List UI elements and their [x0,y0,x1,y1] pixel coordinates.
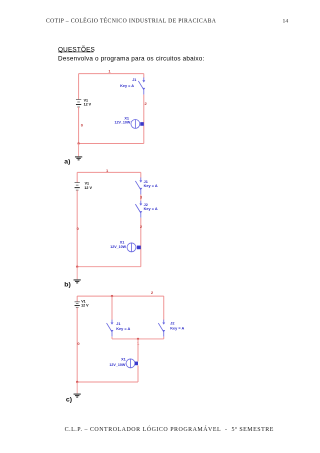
wire: top B [77,171,141,173]
svg-text:Key = A: Key = A [144,184,158,188]
battery V1 (circuit a) [76,99,81,106]
wire: left C lower [76,308,78,382]
wire: left branch C upper [111,296,113,320]
svg-text:14: 14 [283,18,289,24]
svg-text:Key = A: Key = A [120,84,134,88]
svg-text:Desenvolva o programa para os: Desenvolva o programa para os circuitos … [58,56,204,63]
junction C bottom-left [76,381,78,383]
svg-text:V1: V1 [84,98,88,102]
wire: left A upper [77,74,79,100]
svg-text:J2: J2 [170,322,174,326]
wire: right B upper stub [140,172,142,177]
wire: ground stem B [76,267,78,280]
svg-text:c): c) [66,397,72,404]
junction B bottom-left [76,265,78,267]
switch J2 (circuit b) [135,201,142,218]
svg-text:12 V: 12 V [84,186,92,190]
ground (circuit c) [74,394,81,397]
junction A bottom-left [77,142,79,144]
svg-text:J2: J2 [144,203,148,207]
wire: right A lower [143,95,145,144]
wire: between switches B [140,195,142,201]
svg-text:b): b) [64,282,70,289]
junction C mid [137,338,139,340]
wire: top C [77,295,164,297]
switch J1 (circuit b) [135,178,142,195]
battery V1 (circuit c) [75,302,80,308]
wire: right A upper stub [143,74,145,78]
wire: left B upper [76,172,78,182]
svg-text:V1: V1 [81,300,85,304]
wire: mid vertical C lower [137,365,139,382]
svg-text:12 V: 12 V [84,103,92,107]
wire: mid vertical C upper [137,339,139,361]
switch J1 (circuit a) [138,77,145,94]
svg-text:Key = A: Key = A [144,207,158,211]
svg-text:a): a) [64,159,70,166]
wire: ground stem C [76,382,78,393]
lamp X1 (circuit b) [127,243,141,252]
svg-text:Key = A: Key = A [170,326,184,330]
wire: right branch C stub [163,337,165,339]
wire: right B lower [140,218,142,267]
wire: left C upper [76,296,78,302]
svg-text:V1: V1 [85,182,89,186]
wire: bottom A [79,142,144,144]
junction C top [111,295,113,297]
wire: left B lower [76,190,78,267]
wire: right branch C upper [163,296,165,320]
wire: left A lower [77,107,79,144]
ground (circuit b) [74,280,81,283]
wire: left branch C stub [111,337,113,339]
wire: bottom C [77,381,138,383]
switch J1 (circuit c) [107,320,114,337]
svg-text:12V_10W: 12V_10W [109,363,125,367]
wire: top A [79,72,144,74]
svg-text:Key = A: Key = A [116,327,130,331]
svg-text:12 V: 12 V [81,304,89,308]
wire: ground stem A [77,143,79,156]
svg-text:12V_10W: 12V_10W [114,121,130,125]
wire: bottom B [77,266,141,268]
lamp X1 (circuit a) [131,119,144,128]
switch J2 (circuit c) [158,320,165,337]
ground (circuit a) [75,157,82,160]
wire: join C [112,338,164,340]
svg-text:12V_10W: 12V_10W [110,245,126,249]
lamp X1 (circuit c) [126,359,138,368]
battery V1 (circuit b) [75,183,80,190]
